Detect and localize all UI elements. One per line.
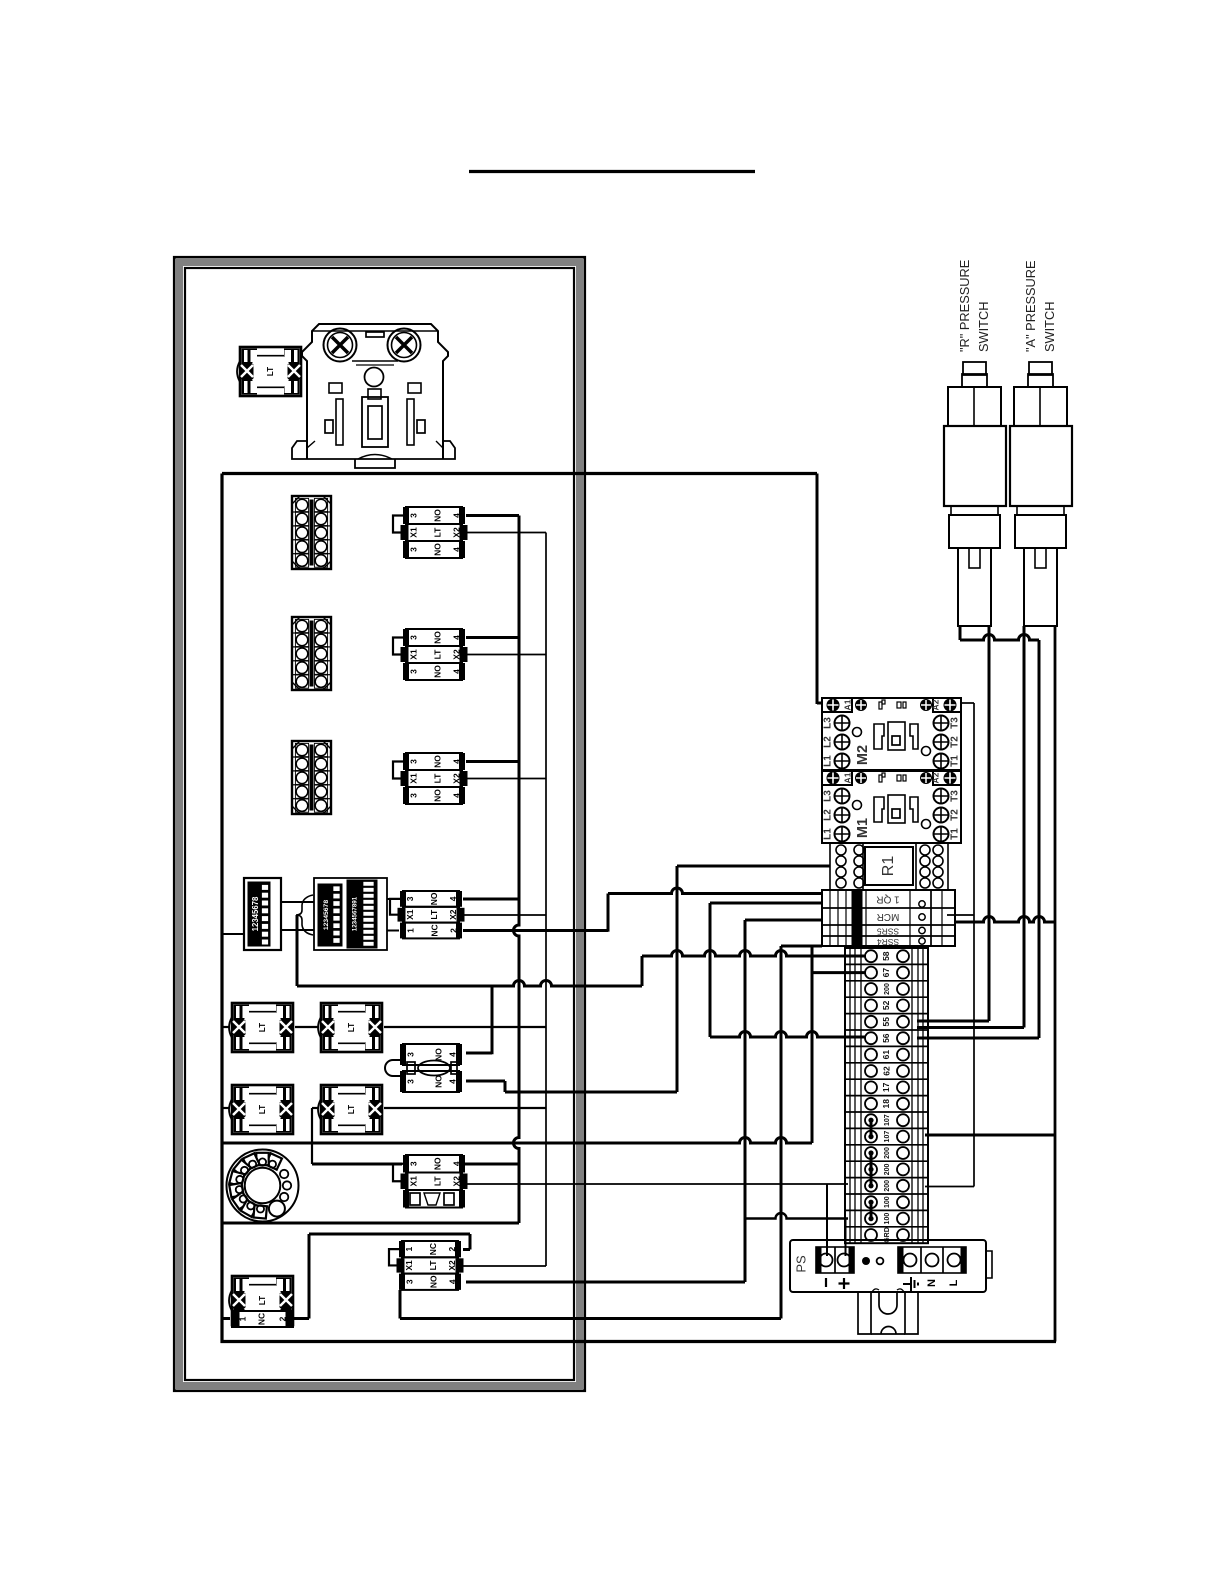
svg-text:3: 3 <box>408 669 418 674</box>
svg-text:SSR5: SSR5 <box>877 926 899 936</box>
svg-text:L1: L1 <box>823 755 834 767</box>
svg-text:X1: X1 <box>405 909 415 920</box>
svg-text:200: 200 <box>884 1163 891 1175</box>
svg-text:L3: L3 <box>823 790 834 802</box>
svg-text:1234567891: 1234567891 <box>352 896 359 931</box>
svg-text:NO: NO <box>432 755 442 768</box>
svg-text:56: 56 <box>881 1033 891 1043</box>
svg-text:NC: NC <box>428 1243 438 1255</box>
svg-text:T3: T3 <box>950 790 961 802</box>
svg-text:3: 3 <box>408 1161 418 1166</box>
svg-text:X2: X2 <box>447 1260 457 1271</box>
svg-text:L2: L2 <box>823 736 834 748</box>
svg-text:T2: T2 <box>950 736 961 748</box>
svg-text:3: 3 <box>408 547 418 552</box>
svg-text:X1: X1 <box>408 527 418 538</box>
svg-text:LT: LT <box>432 649 442 660</box>
svg-text:3: 3 <box>408 635 418 640</box>
svg-text:4: 4 <box>447 1279 457 1284</box>
svg-text:NC: NC <box>256 1313 266 1325</box>
svg-text:NO: NO <box>432 543 442 556</box>
svg-text:12345678: 12345678 <box>251 896 260 931</box>
svg-text:107: 107 <box>884 1131 891 1143</box>
svg-text:NO: NO <box>433 1075 443 1088</box>
svg-text:1: 1 <box>405 928 415 933</box>
svg-text:T3: T3 <box>950 717 961 729</box>
svg-text:NO: NO <box>432 665 442 678</box>
svg-text:4: 4 <box>447 1052 457 1057</box>
svg-text:2: 2 <box>448 928 458 933</box>
svg-text:SWITCH: SWITCH <box>976 302 991 352</box>
svg-text:200: 200 <box>884 983 891 995</box>
svg-text:1: 1 <box>404 1247 414 1252</box>
svg-text:1: 1 <box>237 1316 247 1321</box>
svg-text:4: 4 <box>451 759 461 764</box>
svg-text:4: 4 <box>451 513 461 518</box>
svg-text:3: 3 <box>404 1279 414 1284</box>
svg-text:100: 100 <box>884 1213 891 1225</box>
svg-text:4: 4 <box>451 547 461 552</box>
svg-text:58: 58 <box>881 951 891 961</box>
svg-text:4: 4 <box>448 896 458 901</box>
svg-text:62: 62 <box>881 1066 891 1076</box>
svg-text:X2: X2 <box>451 527 461 538</box>
svg-text:SSR4: SSR4 <box>877 937 899 947</box>
svg-text:3: 3 <box>405 896 415 901</box>
svg-text:X1: X1 <box>408 773 418 784</box>
svg-text:LT: LT <box>429 909 439 920</box>
svg-text:4: 4 <box>451 669 461 674</box>
svg-text:LT: LT <box>266 367 275 376</box>
svg-text:LT: LT <box>347 1023 356 1032</box>
svg-text:200: 200 <box>884 1147 891 1159</box>
svg-text:100: 100 <box>884 1196 891 1208</box>
svg-text:LT: LT <box>432 1176 442 1187</box>
svg-text:M1: M1 <box>855 818 871 838</box>
svg-text:A1: A1 <box>842 699 852 710</box>
svg-text:R1: R1 <box>880 856 897 877</box>
svg-text:61: 61 <box>881 1050 891 1060</box>
svg-text:LT: LT <box>432 527 442 538</box>
svg-text:NO: NO <box>432 631 442 644</box>
svg-text:X2: X2 <box>451 649 461 660</box>
svg-text:PS: PS <box>793 1255 808 1273</box>
svg-text:NO: NO <box>432 789 442 802</box>
svg-text:LT: LT <box>432 773 442 784</box>
svg-text:NC: NC <box>429 924 439 936</box>
svg-text:107: 107 <box>884 1114 891 1126</box>
svg-text:M2: M2 <box>855 745 871 765</box>
svg-text:2: 2 <box>447 1247 457 1252</box>
svg-text:LT: LT <box>347 1105 356 1114</box>
svg-text:1 QR: 1 QR <box>876 893 899 904</box>
svg-text:NO: NO <box>429 892 439 905</box>
svg-text:X1: X1 <box>408 1176 418 1187</box>
svg-text:L2: L2 <box>823 809 834 821</box>
svg-text:T1: T1 <box>950 828 961 840</box>
svg-text:L1: L1 <box>823 828 834 840</box>
svg-text:T1: T1 <box>950 755 961 767</box>
svg-text:4: 4 <box>451 793 461 798</box>
svg-text:200: 200 <box>884 1180 891 1192</box>
svg-text:LT: LT <box>258 1296 267 1305</box>
svg-text:X1: X1 <box>408 649 418 660</box>
svg-text:L: L <box>948 1279 960 1286</box>
svg-text:SWITCH: SWITCH <box>1042 302 1057 352</box>
svg-text:L3: L3 <box>823 717 834 729</box>
svg-text:17: 17 <box>881 1082 891 1092</box>
svg-text:LT: LT <box>258 1023 267 1032</box>
svg-text:"R" PRESSURE: "R" PRESSURE <box>957 260 972 352</box>
svg-text:4: 4 <box>451 635 461 640</box>
svg-text:NO: NO <box>432 1157 442 1170</box>
svg-text:4: 4 <box>447 1079 457 1084</box>
svg-text:2: 2 <box>277 1316 287 1321</box>
svg-text:T2: T2 <box>950 809 961 821</box>
svg-text:NO: NO <box>433 1048 443 1061</box>
svg-text:A1: A1 <box>842 772 852 783</box>
svg-text:3: 3 <box>405 1052 415 1057</box>
svg-text:12345678: 12345678 <box>323 900 330 930</box>
svg-text:"A" PRESSURE: "A" PRESSURE <box>1023 260 1038 352</box>
svg-text:N: N <box>926 1279 938 1287</box>
svg-text:X2: X2 <box>451 1176 461 1187</box>
svg-text:LT: LT <box>428 1260 438 1271</box>
svg-text:18: 18 <box>881 1099 891 1109</box>
svg-text:3: 3 <box>408 513 418 518</box>
svg-text:55: 55 <box>881 1017 891 1027</box>
svg-text:NO: NO <box>428 1275 438 1288</box>
svg-text:MCR: MCR <box>877 911 900 922</box>
svg-text:3: 3 <box>408 759 418 764</box>
svg-text:NO: NO <box>432 509 442 522</box>
svg-text:LT: LT <box>258 1105 267 1114</box>
svg-text:67: 67 <box>881 968 891 978</box>
svg-text:4: 4 <box>451 1161 461 1166</box>
svg-text:X2: X2 <box>448 909 458 920</box>
svg-text:3: 3 <box>408 793 418 798</box>
svg-text:52: 52 <box>881 1000 891 1010</box>
svg-text:3: 3 <box>405 1079 415 1084</box>
svg-text:X1: X1 <box>404 1260 414 1271</box>
svg-text:X2: X2 <box>451 773 461 784</box>
